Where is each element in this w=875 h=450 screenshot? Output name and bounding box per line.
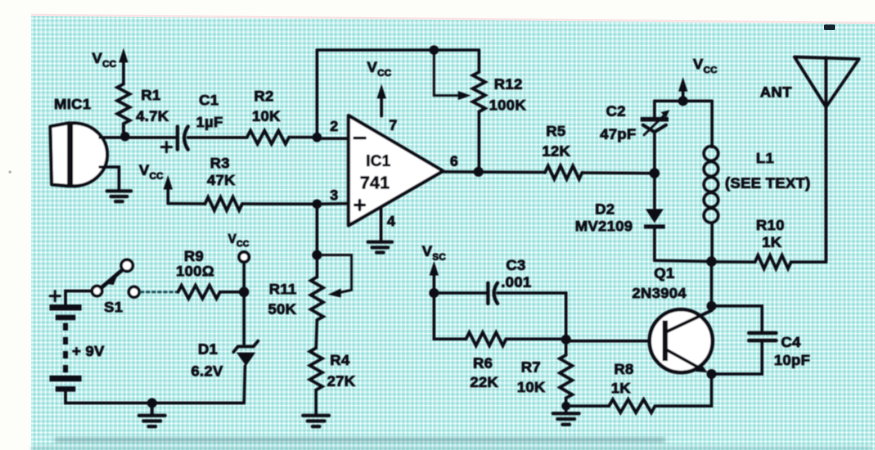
node Vcc rail	[678, 96, 688, 106]
wire R9 to D1 node	[220, 291, 244, 294]
capacitor C3	[488, 283, 498, 304]
node base	[561, 335, 571, 345]
wire D2 bottom to tank node	[655, 261, 712, 262]
wire R5 to varactor node	[582, 171, 655, 174]
wire dotted switch to R9	[141, 291, 178, 294]
node R7/R8	[562, 402, 571, 411]
wire top corner down to R12	[478, 50, 481, 72]
wire R6 branch	[434, 293, 466, 339]
wire Vcc rail horizontal	[655, 100, 713, 103]
svg-text:3: 3	[330, 188, 338, 204]
svg-text:R4: R4	[330, 352, 350, 369]
svg-text:R5: R5	[546, 123, 566, 140]
wire R3 to pin3 node	[242, 202, 317, 205]
wire node to op-amp pin 3	[317, 202, 349, 206]
svg-text:IC1: IC1	[366, 153, 391, 170]
resistor R1	[117, 84, 129, 133]
wire Vcc corner to R3	[168, 202, 205, 205]
resistor R5	[545, 166, 582, 179]
svg-text:1K: 1K	[762, 234, 782, 251]
node pin3	[312, 199, 322, 209]
svg-text:R3: R3	[210, 155, 230, 172]
svg-text:+ 9V: + 9V	[72, 343, 105, 360]
svg-text:ANT: ANT	[760, 84, 792, 101]
resistor R4	[310, 348, 322, 390]
wire battery top to switch	[66, 291, 93, 305]
svg-text:R6: R6	[473, 355, 493, 372]
node A (mic/R1/C1 junction)	[120, 132, 130, 142]
node R9/D1/Vcc	[239, 287, 249, 297]
wire C1 to R2	[188, 136, 247, 139]
wire R8 left lead	[566, 405, 609, 408]
switch S1	[92, 260, 139, 297]
node Vsc/C3/R6	[429, 288, 439, 298]
wire R6 to base node	[506, 338, 566, 341]
ground (R4)	[303, 416, 329, 427]
node collector/C4	[707, 301, 717, 311]
svg-text:S1: S1	[104, 299, 123, 316]
wire terminal to node	[243, 263, 246, 293]
wire mic output to node	[100, 136, 125, 139]
resistor R3	[205, 197, 242, 210]
svg-text:D2: D2	[595, 201, 615, 218]
node C2/D2	[649, 168, 659, 178]
svg-text:12K: 12K	[542, 143, 570, 160]
svg-text:7: 7	[389, 118, 397, 134]
svg-text:741: 741	[360, 173, 390, 193]
wire node to C1	[125, 136, 175, 139]
wire pin 4 stub	[380, 207, 383, 242]
svg-text:47K: 47K	[207, 172, 235, 189]
node tank/collector	[706, 256, 716, 266]
svg-text:22K: 22K	[470, 374, 498, 391]
resistor R8	[609, 399, 655, 412]
wire R10 to antenna lead	[791, 261, 826, 264]
wire R12 bottom to output node	[478, 112, 481, 172]
wire node up to C2	[653, 132, 656, 173]
node pin2	[312, 133, 322, 143]
wire R11 to R4	[316, 320, 317, 348]
node emitter	[707, 369, 717, 379]
capacitor C4	[749, 333, 776, 341]
svg-text:C4: C4	[781, 334, 801, 351]
svg-text:4: 4	[387, 214, 396, 230]
wire collector up to tank node	[710, 262, 713, 311]
wire node to C3	[434, 292, 486, 295]
Vcc arrow (op-amp pin 7)	[377, 84, 386, 116]
svg-text:100K: 100K	[489, 97, 526, 114]
svg-text:(SEE TEXT): (SEE TEXT)	[725, 175, 811, 192]
ground (mic)	[107, 191, 131, 202]
svg-text:2: 2	[330, 119, 338, 135]
resistor R2	[247, 131, 289, 144]
wire mic lower lead to ground	[100, 167, 119, 190]
svg-text:R11: R11	[269, 281, 297, 298]
wire R2 to pin2 node	[289, 136, 317, 139]
node feedback/wiper	[429, 45, 439, 55]
Vcc terminal circle	[239, 252, 249, 262]
capacitor C1 (polarized)	[162, 127, 189, 153]
op-amp plus sign	[355, 200, 365, 210]
top right stray mark	[824, 25, 835, 31]
battery B1 +9V	[50, 291, 82, 392]
wire C2 top to Vcc rail	[653, 101, 656, 117]
svg-text:6: 6	[450, 154, 458, 170]
svg-text:.001: .001	[501, 274, 532, 291]
svg-text:10K: 10K	[252, 108, 280, 125]
svg-text:MV2109: MV2109	[575, 218, 633, 235]
wire C4 to emitter node	[712, 343, 763, 375]
svg-text:100Ω: 100Ω	[176, 263, 214, 280]
svg-text:C3: C3	[506, 257, 526, 274]
wire R4 to ground	[315, 390, 318, 415]
svg-text:R2: R2	[254, 88, 274, 105]
Vsc arrow (bias feed)	[429, 261, 438, 293]
svg-text:C2: C2	[606, 103, 626, 120]
wire base node to Q1 base	[566, 340, 664, 343]
microphone MIC1	[50, 123, 107, 186]
wire output pin 6	[443, 170, 545, 174]
wire base node to R7	[565, 341, 568, 355]
op-amp minus sign	[355, 137, 366, 140]
ground (battery)	[139, 403, 165, 427]
wire R8 to emitter	[655, 374, 712, 406]
svg-text:10K: 10K	[517, 379, 545, 396]
trimmer capacitor C2	[641, 110, 670, 135]
svg-text:R1: R1	[141, 87, 161, 104]
svg-text:R8: R8	[614, 361, 634, 378]
wire wiper drop	[434, 50, 460, 96]
ground (R7)	[553, 414, 579, 425]
svg-text:R7: R7	[521, 359, 541, 376]
wire feedback vertical	[316, 50, 319, 137]
node ground run	[147, 398, 157, 408]
svg-text:1µF: 1µF	[196, 114, 223, 131]
svg-text:C1: C1	[199, 92, 219, 109]
transistor Q1 2N3904	[650, 310, 713, 373]
svg-text:Q1: Q1	[654, 265, 675, 282]
svg-text:50K: 50K	[268, 301, 296, 318]
wire C3 to base node column	[498, 293, 567, 341]
wiper arrowhead into R12	[458, 91, 471, 100]
resistor R10	[755, 255, 791, 268]
op-amp IC1 741	[349, 116, 444, 226]
svg-text:2N3904: 2N3904	[632, 285, 687, 302]
svg-text:4.7K: 4.7K	[136, 108, 169, 125]
potentiometer R12	[473, 72, 485, 112]
svg-text:R12: R12	[494, 76, 522, 93]
svg-text:L1: L1	[756, 150, 774, 167]
Vcc arrow (mid left, R3 feed)	[163, 175, 172, 204]
wire R11 wiper loop	[317, 255, 352, 293]
bottom edge scan smudge	[55, 437, 665, 443]
svg-text:1K: 1K	[611, 380, 631, 397]
left margin speck	[9, 171, 12, 174]
resistor R7	[560, 355, 572, 398]
ground (op-amp pin 4)	[368, 242, 392, 253]
svg-text:47pF: 47pF	[600, 126, 636, 143]
wire tank node to R10	[712, 260, 756, 263]
resistor R6	[466, 332, 506, 345]
wire R7 bottom to ground	[565, 398, 568, 413]
varactor diode D2 MV2109	[644, 173, 665, 260]
svg-text:D1: D1	[198, 341, 218, 358]
resistor R9	[178, 285, 220, 298]
wire collector to C4	[712, 306, 763, 331]
wire pin3 node down to R11	[316, 204, 319, 277]
svg-text:6.2V: 6.2V	[191, 363, 224, 380]
svg-text:R10: R10	[756, 217, 784, 234]
svg-text:10pF: 10pF	[774, 352, 810, 369]
potentiometer R11	[311, 277, 323, 320]
node output/R12	[474, 167, 484, 177]
Vcc arrow (top left)	[119, 48, 128, 84]
antenna ANT	[795, 57, 860, 262]
wire feedback top run	[317, 49, 479, 52]
zener diode D1	[234, 292, 259, 403]
wire battery bottom to ground run	[66, 392, 153, 404]
node R11 wiper	[312, 250, 322, 260]
wire node to op-amp pin 2	[317, 137, 349, 140]
inductor L1	[704, 101, 718, 262]
pink scan tint at top edge	[31, 14, 875, 25]
Vcc arrow (oscillator)	[678, 77, 687, 101]
svg-text:MIC1: MIC1	[54, 96, 91, 113]
wire ground run to D1	[152, 402, 244, 405]
wiper arrowhead into R11	[328, 289, 341, 298]
svg-text:27K: 27K	[327, 373, 355, 390]
